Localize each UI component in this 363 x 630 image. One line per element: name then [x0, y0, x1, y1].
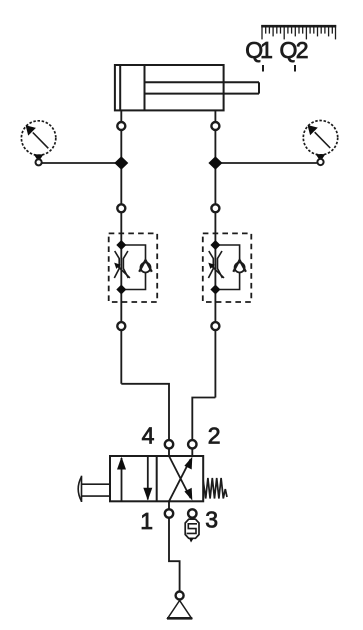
svg-text:Q1: Q1	[245, 37, 272, 63]
svg-text:2: 2	[208, 422, 221, 448]
svg-text:Q2: Q2	[280, 37, 308, 63]
svg-text:3: 3	[205, 506, 218, 532]
svg-text:4: 4	[142, 422, 155, 448]
svg-text:1: 1	[140, 508, 153, 534]
